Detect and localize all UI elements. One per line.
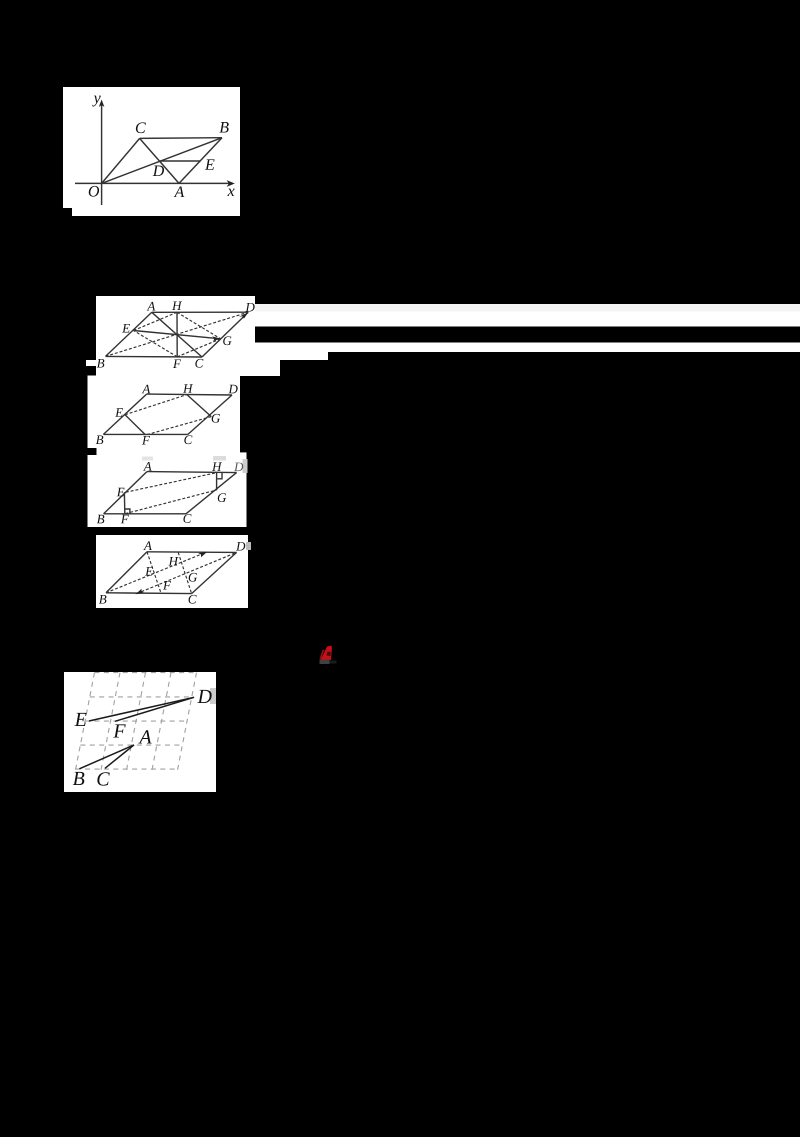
white tab bottom-left of box 2 xyxy=(86,360,96,366)
right angle at F xyxy=(125,509,130,514)
gray tab right of box 5 D xyxy=(246,542,251,550)
edge D-C xyxy=(186,473,237,514)
edge B-C xyxy=(106,592,192,595)
node label A xyxy=(174,186,185,197)
grid horizontal line 1 xyxy=(95,672,199,674)
segment H-G xyxy=(187,395,211,417)
node label F xyxy=(113,724,126,737)
node label D xyxy=(245,303,254,312)
node label D xyxy=(234,463,243,472)
node label C xyxy=(183,514,191,523)
node label D xyxy=(236,542,245,551)
figure box 3+4 merged white region xyxy=(88,376,241,528)
grid slanted line 1 xyxy=(75,673,95,773)
grid horizontal line 4 xyxy=(80,744,183,746)
dark bar right xyxy=(330,661,337,664)
wire O-B xyxy=(102,138,222,184)
red glyph left tail xyxy=(320,650,325,660)
y-axis arrowhead xyxy=(99,100,105,108)
segment F-E dashed xyxy=(134,331,178,357)
dark bar under red glyph xyxy=(320,660,330,665)
diagonal B-D dashed xyxy=(106,312,249,356)
node label H xyxy=(168,557,178,566)
node label A xyxy=(138,730,151,743)
vector C-A xyxy=(105,745,134,768)
segment H-G vertical xyxy=(216,473,218,490)
segment H-G dashed xyxy=(177,312,221,339)
right angle at H xyxy=(217,473,222,479)
node label B xyxy=(96,435,104,444)
arrowhead on ray B at AD xyxy=(198,552,207,557)
node label B xyxy=(219,122,228,133)
node label G xyxy=(212,414,220,423)
wire O-C xyxy=(102,138,140,183)
node label E xyxy=(117,488,125,497)
node label D xyxy=(228,385,237,394)
edge D-C xyxy=(192,552,237,593)
segment F-E xyxy=(125,415,146,435)
edge A-D xyxy=(147,393,232,396)
node label D xyxy=(153,166,165,177)
node label B xyxy=(97,515,105,524)
node label C xyxy=(184,435,192,444)
segment G-F dashed xyxy=(146,417,212,435)
edge D-C xyxy=(188,395,232,434)
edge D-A xyxy=(152,311,248,313)
grid slanted line 4 xyxy=(151,673,171,773)
edge A-B xyxy=(106,312,152,356)
node label G xyxy=(218,493,226,502)
node label D xyxy=(197,690,211,703)
node label H xyxy=(172,301,182,310)
node label B xyxy=(73,772,85,785)
edge A-D xyxy=(147,472,237,473)
y-axis xyxy=(101,104,103,206)
node label E xyxy=(205,159,215,169)
node label E xyxy=(145,567,153,576)
node label F xyxy=(173,359,181,368)
segment E-F vertical xyxy=(123,492,125,514)
node label C xyxy=(195,359,203,368)
figure box 5 (parallelogram with translated dashed lines) xyxy=(96,535,248,608)
node label A xyxy=(143,541,152,550)
edge A-B xyxy=(103,394,146,434)
segment H-F xyxy=(176,312,178,357)
wire D-E xyxy=(160,160,200,162)
vector F-D xyxy=(115,697,194,721)
grid horizontal line 2 xyxy=(90,696,194,698)
x-axis arrowhead xyxy=(227,180,235,187)
node label E xyxy=(115,408,123,417)
arrowhead at D xyxy=(239,312,248,318)
segment E-H dashed xyxy=(125,395,187,415)
edge A-B xyxy=(104,472,147,514)
node label G xyxy=(189,573,197,582)
dashed line AD to C xyxy=(178,552,191,593)
edge A-D xyxy=(147,551,237,554)
node label E xyxy=(74,713,86,726)
node label A xyxy=(142,385,151,394)
grid slanted line 3 xyxy=(126,673,146,773)
segment F-G dashed xyxy=(125,490,216,514)
x-axis xyxy=(75,182,229,184)
grid horizontal line 3 xyxy=(85,720,189,722)
notch bottom-left of box 1 xyxy=(63,208,72,216)
figure box 4 right extension xyxy=(240,452,247,527)
edge B-C xyxy=(103,433,187,435)
node label G xyxy=(223,336,231,345)
gray tab right of box 4 D xyxy=(243,459,248,473)
wire A-B xyxy=(179,138,222,184)
dashed ray BC to D xyxy=(137,552,237,593)
node label B xyxy=(99,595,107,604)
dashed line A to BC xyxy=(147,552,161,594)
figure box 6 (grid with vectors) xyxy=(64,672,216,792)
dashed ray B to AD xyxy=(106,552,206,592)
node label O xyxy=(89,186,99,197)
segment G-F dashed xyxy=(177,339,220,357)
node label y xyxy=(92,96,100,107)
node label C xyxy=(97,772,109,785)
white band right of box 2 xyxy=(255,312,800,327)
wire C-A xyxy=(140,138,179,183)
node label B xyxy=(97,359,105,368)
red glyph xyxy=(321,646,332,661)
white band right of box 2 (light gray strip) xyxy=(255,304,800,312)
gray smudge between box3 and box4 right xyxy=(213,456,226,461)
edge A-B xyxy=(106,552,147,593)
figure box 2 (parallelogram with cevians) xyxy=(96,296,255,376)
gray smudge between box3 and box4 left xyxy=(142,457,153,461)
arrowhead on ray at BC end xyxy=(136,589,145,594)
edge C-D xyxy=(202,312,248,357)
diagonal A-C xyxy=(152,312,202,357)
node label E xyxy=(122,324,130,333)
edge B-C xyxy=(104,513,186,515)
node label A xyxy=(147,302,156,311)
white step right of box 2 xyxy=(255,352,328,360)
figure box 1 (coordinate plane) xyxy=(63,87,240,216)
node label A xyxy=(143,462,152,471)
wire C-B xyxy=(140,137,222,140)
black notch left between box3 and box4 xyxy=(88,448,97,455)
segment E-G xyxy=(134,331,221,339)
node label H xyxy=(183,384,193,393)
node label C xyxy=(189,595,197,604)
node label H xyxy=(212,462,222,471)
grid slanted line 5 xyxy=(177,673,197,773)
gray tab right of box 6 D xyxy=(210,688,216,704)
vector E-D xyxy=(89,697,194,721)
edge B-C xyxy=(106,355,203,358)
node label C xyxy=(136,122,146,133)
arrowhead at G xyxy=(212,336,221,341)
node label F xyxy=(121,515,129,524)
grid slanted line 2 xyxy=(100,673,120,773)
node label F xyxy=(142,436,150,445)
segment E-H dashed xyxy=(126,473,217,493)
vector B-A xyxy=(79,745,134,769)
red glyph inner dark notch xyxy=(327,652,331,657)
grid horizontal line 5 xyxy=(76,768,180,770)
node label F xyxy=(163,581,171,590)
white step right of box 2 low xyxy=(255,360,280,376)
white band right of box 2 lower xyxy=(255,343,800,353)
segment E-H dashed xyxy=(134,312,178,330)
node label x xyxy=(227,189,234,196)
